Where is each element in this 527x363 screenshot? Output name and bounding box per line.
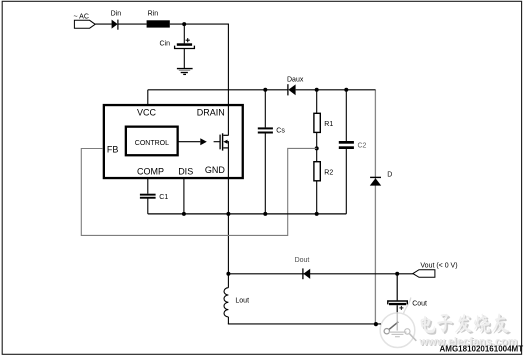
- svg-text:GND: GND: [205, 165, 226, 175]
- watermark chinese characters 电子发烧友 (face): [421, 313, 509, 332]
- ground symbol below Cin: [177, 69, 193, 75]
- node dot R1/R2 junction: [315, 146, 319, 150]
- svg-text:Daux: Daux: [287, 77, 304, 84]
- wire Din to Rin: [118, 23, 147, 25]
- wire corner top of gray drop: [374, 89, 377, 91]
- resistor R1: [314, 90, 320, 149]
- node dot R1 top: [315, 88, 319, 92]
- node dot DIS rail: [182, 212, 186, 216]
- node dot R2 rail: [315, 212, 319, 216]
- node Vout tag: [413, 270, 435, 278]
- watermark elecfans logo circle: [380, 298, 415, 348]
- wire bottom return: [228, 323, 381, 325]
- arrowhead control arrow: [200, 138, 207, 145]
- node dot source/Lout junction: [226, 272, 230, 276]
- watermark needle dark segment: [389, 322, 398, 330]
- svg-text:C2: C2: [358, 143, 367, 150]
- wire COMP pin down: [147, 179, 149, 194]
- svg-text:Vout (< 0 V): Vout (< 0 V): [420, 263, 457, 270]
- svg-text:D: D: [387, 172, 392, 179]
- resistor Rin: [147, 20, 170, 27]
- svg-text:FB: FB: [107, 145, 119, 155]
- wire Cout bottom lead faded part: [396, 312, 398, 330]
- node dot Cs rail: [263, 212, 267, 216]
- capacitor Cin polarized: [175, 38, 195, 48]
- svg-text:AMG181020161004MT: AMG181020161004MT: [440, 345, 524, 354]
- wire Dout rail: [228, 273, 413, 275]
- diode Dout: [303, 268, 310, 279]
- capacitor C2: [339, 90, 354, 214]
- transistor Q1 MOSFET: [214, 133, 229, 150]
- ground symbol below Cout (faded): [388, 332, 406, 337]
- watermark chinese characters 电子发烧友 (shadow): [422, 315, 510, 334]
- node dot Vout/Cout junction: [395, 272, 399, 276]
- wire Cout top lead: [396, 274, 398, 301]
- diode Din: [112, 20, 118, 30]
- svg-text:Cs: Cs: [276, 128, 285, 135]
- svg-text:CONTROL: CONTROL: [135, 140, 169, 147]
- svg-text:COMP: COMP: [137, 166, 164, 176]
- watermark small circle right: [405, 329, 410, 334]
- watermark small circle left: [384, 329, 389, 334]
- wire VCC rail to Daux: [148, 89, 288, 91]
- wire Cout bottom lead black part: [396, 305, 398, 312]
- node AC input tag: [74, 20, 95, 28]
- wire VCC pin up: [147, 90, 149, 105]
- svg-text:Rin: Rin: [148, 11, 159, 18]
- node dot GND rail: [226, 212, 230, 216]
- inductor Lout: [224, 274, 228, 324]
- wire Cin to ground: [183, 49, 185, 69]
- svg-text:Din: Din: [111, 10, 122, 17]
- wire Cin lead top: [183, 24, 185, 43]
- svg-text:DIS: DIS: [178, 166, 193, 176]
- diode D: [370, 177, 381, 185]
- svg-text:DRAIN: DRAIN: [197, 107, 225, 117]
- IC box U1: [104, 105, 243, 178]
- wire MOSFET source to GND pin down: [227, 142, 229, 274]
- node dot Cs top: [263, 88, 267, 92]
- wire aux right drop (gray) through D: [374, 90, 376, 324]
- node dot bottom D junction: [374, 322, 378, 326]
- wire control arrow to gate: [178, 141, 201, 143]
- svg-text:Cin: Cin: [160, 40, 171, 47]
- wire bottom rail: [148, 213, 346, 215]
- svg-text:R1: R1: [324, 121, 333, 128]
- svg-text:Lout: Lout: [235, 298, 249, 305]
- wire Rin to drain drop corner: [170, 23, 229, 25]
- resistor R2: [314, 148, 320, 214]
- node junction dot Rin/Cin: [182, 22, 186, 26]
- capacitor C1: [140, 194, 156, 214]
- node dot C2 top: [344, 88, 348, 92]
- watermark needle light segment: [410, 334, 417, 341]
- svg-text:Cout: Cout: [412, 300, 427, 307]
- control block U1 inner: [126, 127, 178, 156]
- wire DIS pin down: [183, 179, 185, 214]
- svg-text:R2: R2: [324, 169, 333, 176]
- svg-text:VCC: VCC: [137, 107, 157, 117]
- watermark www.elecfans.com: [419, 336, 519, 349]
- wire FB feedback loop (gray): [81, 148, 316, 235]
- capacitor Cs: [258, 90, 273, 214]
- diode Daux: [288, 84, 296, 95]
- capacitor Cout polarized: [388, 301, 408, 310]
- wire AC to Din: [95, 23, 112, 25]
- wire drain vertical drop to MOSFET: [227, 24, 229, 135]
- wire Daux to corner: [296, 89, 376, 91]
- svg-text:~ AC: ~ AC: [74, 13, 89, 20]
- svg-text:Dout: Dout: [295, 257, 310, 264]
- svg-text:C1: C1: [159, 194, 168, 201]
